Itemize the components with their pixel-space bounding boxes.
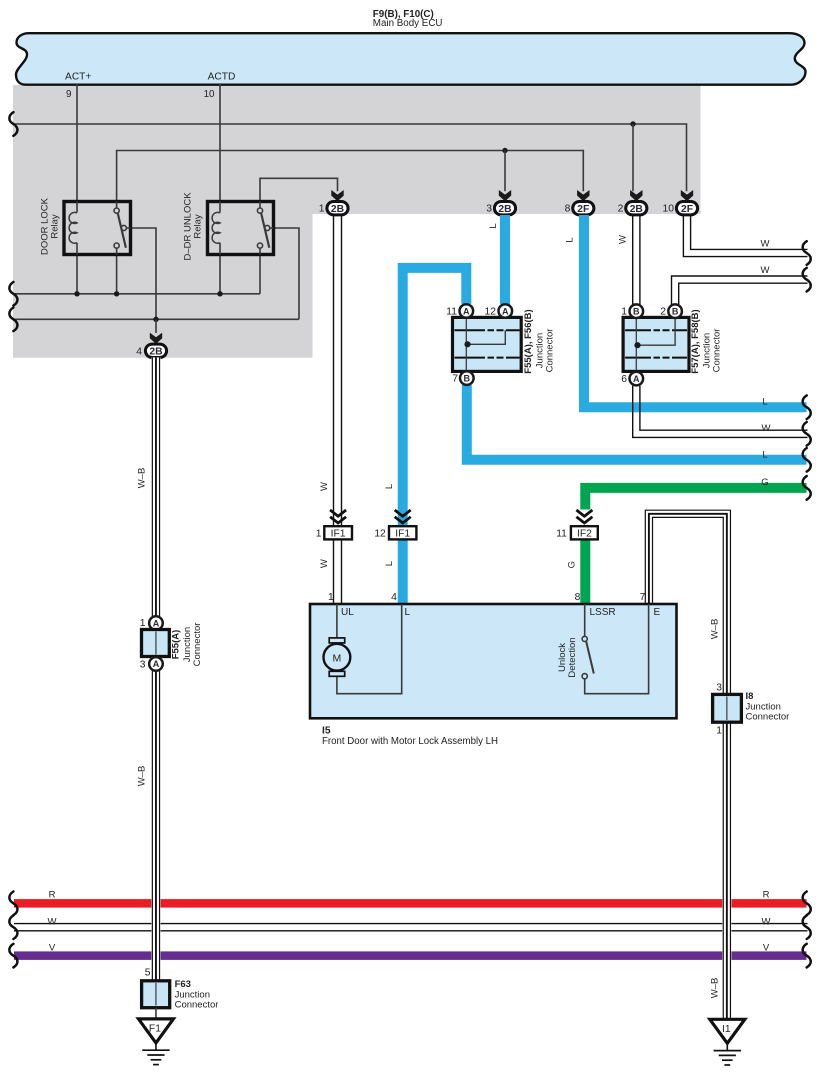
svg-text:V: V bbox=[763, 942, 770, 953]
wire relay1 contact low side bbox=[116, 255, 118, 294]
svg-text:A: A bbox=[633, 374, 640, 384]
connector arrow into 1 IF1 bbox=[330, 510, 346, 516]
wire W from 10 2F to right edge (hollow) bbox=[691, 215, 808, 249]
connector 3 2B bbox=[494, 202, 515, 215]
svg-text:8: 8 bbox=[565, 204, 571, 215]
svg-text:L: L bbox=[488, 223, 499, 228]
svg-text:B: B bbox=[633, 307, 640, 317]
junction connector F63 box bbox=[142, 981, 170, 1008]
svg-text:W: W bbox=[319, 482, 330, 491]
shielded wire W-B from 4 2B to F63 junction connector bbox=[151, 357, 160, 980]
relay DOOR LOCK box bbox=[64, 202, 131, 255]
connector 1 IF1 bbox=[324, 526, 352, 539]
svg-text:2: 2 bbox=[618, 204, 624, 215]
svg-text:W: W bbox=[762, 917, 771, 928]
wire bus to 2B/2F connectors (upper) bbox=[15, 124, 687, 191]
break mark left bbox=[9, 112, 17, 136]
I5 motor circuit wire bbox=[337, 604, 402, 694]
svg-text:G: G bbox=[567, 561, 578, 568]
svg-text:Connector: Connector bbox=[712, 329, 723, 373]
svg-text:W: W bbox=[319, 559, 330, 568]
motor M bbox=[329, 638, 345, 643]
ground bus of relays bbox=[15, 293, 261, 295]
svg-text:I8: I8 bbox=[746, 691, 754, 702]
svg-text:I1: I1 bbox=[722, 1024, 731, 1035]
svg-text:1: 1 bbox=[621, 307, 627, 318]
svg-text:IF1: IF1 bbox=[395, 529, 410, 540]
svg-text:Connector: Connector bbox=[175, 1000, 219, 1011]
connector arrow into 8 2F bbox=[577, 190, 589, 201]
connector arrow into 10 2F bbox=[681, 190, 693, 201]
svg-text:2F: 2F bbox=[681, 204, 693, 215]
wire W from F57 B2 to right edge (hollow) bbox=[679, 283, 808, 305]
svg-text:3: 3 bbox=[486, 204, 492, 215]
I5 unlock detection switch wire bbox=[585, 604, 649, 694]
svg-text:L: L bbox=[405, 607, 411, 618]
svg-text:R: R bbox=[49, 890, 56, 901]
main body ECU block F9(B) F10(C) bbox=[16, 33, 806, 84]
junction dot output bus bbox=[153, 317, 158, 322]
svg-text:LSSR: LSSR bbox=[590, 607, 616, 618]
svg-text:IF1: IF1 bbox=[331, 529, 346, 540]
svg-text:L: L bbox=[762, 450, 767, 461]
wire door lock relay NO contact to connectors bbox=[117, 151, 584, 202]
wire L loop IF1-12 up and over to F55 A11 (blue) bbox=[403, 268, 467, 528]
svg-text:Connector: Connector bbox=[746, 712, 790, 723]
svg-text:2B: 2B bbox=[331, 204, 344, 215]
connector 1 2B bbox=[327, 202, 348, 215]
connector 11 IF2 bbox=[571, 526, 598, 539]
svg-text:11: 11 bbox=[556, 529, 567, 540]
wire unlock relay contact to 1 2B bbox=[260, 178, 338, 201]
svg-text:A: A bbox=[153, 659, 160, 669]
svg-text:V: V bbox=[49, 942, 56, 953]
connector 8 2F bbox=[573, 202, 594, 215]
svg-text:Connector: Connector bbox=[545, 329, 556, 373]
ground I1 bbox=[710, 1019, 745, 1043]
wire branch to 3 2B bbox=[504, 151, 506, 192]
wire relay2 contact low side bbox=[259, 255, 261, 294]
wire G from IF2 to I5 pin8 (green) bbox=[580, 540, 590, 604]
connector 12 IF1 bbox=[389, 526, 416, 539]
connector 4 2B bbox=[145, 344, 166, 357]
svg-text:W: W bbox=[761, 265, 770, 276]
svg-text:1: 1 bbox=[328, 592, 334, 603]
wire R bus (red) bbox=[14, 899, 807, 908]
break mark right bbox=[803, 476, 811, 500]
svg-text:4: 4 bbox=[136, 346, 142, 357]
connector arrow into 4 2B bbox=[150, 333, 162, 344]
svg-text:L: L bbox=[384, 484, 395, 489]
connector 10 2F bbox=[676, 202, 697, 215]
junction dot bus bbox=[74, 291, 79, 296]
svg-text:W: W bbox=[762, 423, 771, 434]
wire relay1 common output bbox=[131, 228, 157, 319]
svg-text:B: B bbox=[672, 307, 679, 317]
relay2 switch bbox=[259, 202, 261, 209]
svg-text:A: A bbox=[153, 618, 160, 628]
wire L from IF1-12 to I5 pin4 (blue) bbox=[398, 539, 408, 604]
junction connector F55(A),F56(B) box bbox=[453, 317, 522, 371]
svg-text:11: 11 bbox=[446, 307, 457, 318]
break mark right bbox=[803, 944, 811, 968]
break mark left bbox=[9, 915, 17, 939]
F55 pin A11 bbox=[460, 304, 474, 318]
break mark right bbox=[803, 395, 811, 419]
svg-text:I5: I5 bbox=[322, 726, 331, 737]
wire L from F55 B7 to right edge (blue) bbox=[467, 385, 807, 460]
svg-text:3: 3 bbox=[140, 659, 146, 670]
wire relay2 coil low side bbox=[219, 255, 221, 294]
svg-text:1: 1 bbox=[716, 726, 722, 737]
svg-text:W: W bbox=[48, 917, 57, 928]
svg-text:3: 3 bbox=[716, 683, 722, 694]
svg-text:10: 10 bbox=[204, 89, 215, 100]
F55 pin A12 bbox=[499, 304, 513, 318]
connector arrow into 11 IF2 bbox=[576, 510, 592, 516]
F57 pin B1 bbox=[630, 304, 644, 318]
junction connector I8 box bbox=[713, 694, 742, 722]
relay D-DR UNLOCK box bbox=[208, 202, 274, 255]
F55 internal lines bbox=[455, 329, 486, 331]
junction dot bus bbox=[217, 291, 222, 296]
junction dot bus bbox=[114, 291, 119, 296]
svg-text:9: 9 bbox=[66, 89, 71, 100]
I5 Front Door with Motor Lock Assembly LH box bbox=[310, 604, 677, 718]
svg-text:W–B: W–B bbox=[137, 468, 148, 489]
connector arrow into 1 2B bbox=[331, 190, 343, 201]
svg-text:A: A bbox=[463, 306, 470, 316]
svg-text:F55(A): F55(A) bbox=[171, 630, 182, 660]
svg-text:F63: F63 bbox=[175, 979, 191, 990]
svg-text:E: E bbox=[654, 607, 661, 618]
svg-text:1: 1 bbox=[316, 529, 322, 540]
wire W from 1 2B to IF1 (hollow) bbox=[333, 215, 335, 526]
wire L from 8 2F to right edge (blue) bbox=[584, 215, 807, 407]
relay1 switch bbox=[116, 202, 118, 209]
svg-text:10: 10 bbox=[663, 204, 675, 215]
F55(A) pin A3 bbox=[149, 657, 163, 671]
svg-text:Relay: Relay bbox=[193, 214, 204, 239]
junction dot upper bus bbox=[630, 121, 635, 126]
break mark right bbox=[803, 448, 811, 472]
svg-text:A: A bbox=[502, 306, 509, 316]
wire W from F57 A6 to right edge (hollow) bbox=[640, 386, 808, 431]
break mark left bbox=[9, 892, 17, 916]
shielded wire W-B from I5 E over to I8 junction connector bbox=[645, 510, 730, 694]
svg-text:2B: 2B bbox=[498, 204, 511, 215]
connector 2 2B bbox=[626, 202, 647, 215]
svg-text:B: B bbox=[464, 373, 471, 383]
svg-text:2B: 2B bbox=[630, 204, 643, 215]
svg-text:F55(A), F56(B): F55(A), F56(B) bbox=[523, 309, 534, 373]
svg-text:12: 12 bbox=[485, 307, 497, 318]
F57 pin B2 bbox=[668, 304, 682, 318]
svg-text:W–B: W–B bbox=[137, 766, 148, 787]
svg-text:ACT+: ACT+ bbox=[65, 71, 91, 82]
svg-text:4: 4 bbox=[391, 592, 397, 603]
wire ECU pin9 ACT+ to door lock relay coil bbox=[76, 84, 78, 202]
wire ECU pin10 ACTD to unlock relay coil bbox=[219, 84, 221, 202]
F55 pin B7 bbox=[460, 371, 474, 385]
svg-text:ACTD: ACTD bbox=[208, 71, 236, 82]
svg-text:1: 1 bbox=[319, 204, 325, 215]
svg-text:7: 7 bbox=[452, 374, 458, 385]
svg-text:6: 6 bbox=[621, 374, 627, 385]
svg-text:W: W bbox=[618, 235, 629, 244]
break mark right bbox=[803, 268, 811, 292]
ground F1 bbox=[138, 1019, 173, 1043]
svg-text:Main Body ECU: Main Body ECU bbox=[373, 18, 443, 29]
svg-text:R: R bbox=[763, 890, 770, 901]
break mark right bbox=[803, 422, 811, 446]
shielded wire W-B from I8 to I1 ground bbox=[722, 722, 731, 1019]
break mark left bbox=[9, 282, 17, 306]
svg-text:L: L bbox=[565, 237, 576, 242]
svg-text:L: L bbox=[762, 397, 767, 408]
svg-text:Relay: Relay bbox=[50, 214, 61, 239]
svg-text:UL: UL bbox=[341, 607, 354, 618]
wire G from right edge to IF2 (green) bbox=[585, 488, 806, 510]
connector arrow into 12 IF1 bbox=[395, 510, 411, 516]
wire F63 to F1 ground bbox=[155, 1008, 157, 1019]
svg-text:12: 12 bbox=[374, 529, 386, 540]
svg-text:W: W bbox=[761, 238, 770, 249]
svg-text:1: 1 bbox=[140, 618, 146, 629]
svg-text:8: 8 bbox=[575, 592, 581, 603]
connector arrow into 3 2B bbox=[499, 190, 511, 201]
break mark right bbox=[803, 241, 811, 265]
svg-text:G: G bbox=[761, 477, 768, 488]
svg-text:L: L bbox=[384, 561, 395, 566]
output bus to 4 2B bbox=[15, 318, 300, 320]
gray harness background region bbox=[13, 85, 701, 358]
wire down to 4 2B connector bbox=[155, 319, 157, 333]
junction dot relay line bbox=[502, 148, 507, 153]
wire W bus (hollow) bbox=[14, 923, 808, 925]
relay2 coil bbox=[219, 202, 221, 213]
svg-text:2B: 2B bbox=[149, 346, 162, 357]
svg-text:W–B: W–B bbox=[710, 978, 721, 999]
wire W from IF1 to I5 pin1 (hollow) bbox=[333, 539, 335, 604]
wire V bus (violet) bbox=[14, 951, 807, 960]
F57 internal lines bbox=[625, 329, 651, 331]
svg-text:Connector: Connector bbox=[192, 623, 203, 667]
wire relay2 common output bbox=[274, 228, 300, 319]
junction connector F55(A) box bbox=[142, 630, 170, 657]
F55(A) pin A1 bbox=[149, 616, 163, 630]
break mark left bbox=[9, 308, 17, 332]
svg-text:2F: 2F bbox=[577, 204, 589, 215]
break mark left bbox=[9, 944, 17, 968]
svg-text:Front Door with Motor Lock Ass: Front Door with Motor Lock Assembly LH bbox=[322, 736, 498, 747]
junction connector F57(A),F58(B) box bbox=[623, 317, 689, 371]
relay1 coil bbox=[76, 202, 78, 213]
svg-text:M: M bbox=[333, 652, 342, 664]
wire L from 3 2B to F55 A12 (blue) bbox=[500, 215, 510, 304]
connector arrow into 2 2B bbox=[630, 190, 642, 201]
break mark right bbox=[803, 892, 811, 916]
wire relay1 coil low side bbox=[76, 255, 78, 294]
wire W from 2 2B to F57 B1 (hollow) bbox=[632, 215, 634, 305]
svg-text:IF2: IF2 bbox=[577, 529, 592, 540]
svg-text:F1: F1 bbox=[149, 1023, 161, 1034]
svg-text:7: 7 bbox=[640, 592, 646, 603]
wire branch to 2 2B bbox=[632, 124, 634, 191]
svg-text:5: 5 bbox=[145, 968, 151, 979]
F57 pin A6 bbox=[630, 372, 644, 386]
svg-text:W–B: W–B bbox=[710, 619, 721, 640]
unlock detection switch bbox=[582, 636, 587, 641]
svg-text:Detection: Detection bbox=[567, 637, 578, 677]
svg-text:F57(A), F58(B): F57(A), F58(B) bbox=[690, 309, 701, 373]
svg-text:2: 2 bbox=[660, 307, 666, 318]
break mark right bbox=[803, 915, 811, 939]
